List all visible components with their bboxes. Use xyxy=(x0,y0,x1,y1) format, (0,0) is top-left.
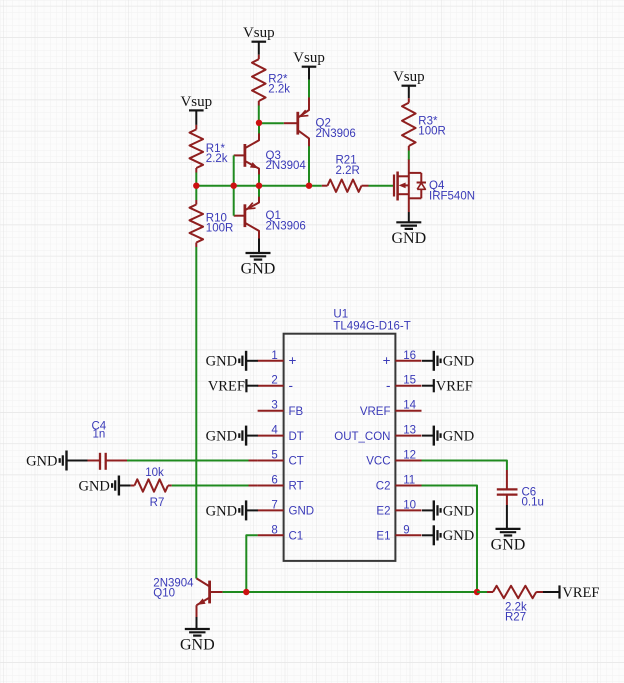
svg-text:OUT_CON: OUT_CON xyxy=(334,431,390,443)
ground port at pin 9 xyxy=(422,525,474,545)
node junction Q1 emitter/row xyxy=(256,183,262,189)
svg-text:VCC: VCC xyxy=(366,456,390,468)
svg-text:8: 8 xyxy=(271,524,277,536)
ground port at pin 16 xyxy=(422,351,474,371)
svg-text:2: 2 xyxy=(271,375,277,387)
svg-text:R7: R7 xyxy=(150,497,165,509)
pin 9 (E1) xyxy=(376,524,421,542)
capacitor C6 xyxy=(497,470,544,509)
wire R3 to Q4 drain xyxy=(408,151,410,161)
ground below Q10 xyxy=(180,629,215,654)
resistor R1 xyxy=(190,125,228,173)
svg-text:C2: C2 xyxy=(376,481,391,493)
svg-text:14: 14 xyxy=(403,400,416,412)
svg-text:CT: CT xyxy=(289,456,304,468)
wire pin 11 C2 to bottom node xyxy=(422,486,478,593)
svg-text:2.2R: 2.2R xyxy=(336,165,360,177)
svg-text:2N3906: 2N3906 xyxy=(266,221,306,233)
svg-text:12: 12 xyxy=(403,450,416,462)
svg-text:R27: R27 xyxy=(505,612,526,624)
svg-text:GND: GND xyxy=(443,503,474,519)
svg-text:2N3906: 2N3906 xyxy=(316,128,356,140)
node junction R2/Q3/Q2 xyxy=(256,120,262,126)
svg-text:DT: DT xyxy=(289,431,304,443)
resistor R21 xyxy=(322,155,369,192)
svg-text:Vsup: Vsup xyxy=(243,25,275,41)
pin 1 (1IN+) xyxy=(258,350,297,368)
wire Q10 base to bottom row xyxy=(223,591,247,593)
wire R21 to Q4 gate xyxy=(369,185,395,187)
wire C4 to pin 5 CT xyxy=(127,460,258,462)
svg-text:6: 6 xyxy=(271,475,277,487)
power port Vsup (R1 branch) xyxy=(180,94,212,125)
svg-text:GND: GND xyxy=(491,537,526,554)
svg-text:+: + xyxy=(383,353,391,368)
svg-text:GND: GND xyxy=(206,503,237,519)
transistor Q2 xyxy=(284,103,356,147)
svg-text:+: + xyxy=(289,353,297,368)
pin 7 (GND) xyxy=(258,499,314,517)
svg-text:VREF: VREF xyxy=(360,406,391,418)
svg-text:13: 13 xyxy=(403,425,416,437)
power port Vsup (R2 branch) xyxy=(243,25,275,55)
svg-text:GND: GND xyxy=(443,429,474,445)
wire R10 bottom to Q10 collector xyxy=(195,247,197,579)
IC U1 TL494G-D16-T xyxy=(284,309,411,561)
wire node row to Q1 emitter xyxy=(258,186,260,197)
wire Q2 collector to node row xyxy=(308,146,310,186)
power port Vsup (Q2 branch) xyxy=(293,50,325,97)
wire R27 to VREF port xyxy=(543,591,560,593)
pin 8 (C1) xyxy=(258,524,304,542)
ground port at pin 4 xyxy=(206,426,258,446)
wire R7 to pin 6 RT xyxy=(172,485,258,487)
wire Q10 emitter to ground xyxy=(196,617,198,629)
svg-text:2N3904: 2N3904 xyxy=(266,160,307,172)
power port Vsup (R3 branch) xyxy=(393,69,425,98)
wire Q1 collector down xyxy=(258,237,260,253)
node junction pin11/bottom xyxy=(474,589,480,595)
svg-text:FB: FB xyxy=(289,406,304,418)
svg-text:GND: GND xyxy=(241,261,276,278)
wire pin 12 VCC to C6 xyxy=(422,461,507,471)
pin 15 (2IN-) xyxy=(386,375,422,393)
node junction R1/row xyxy=(193,183,199,189)
svg-text:2.2k: 2.2k xyxy=(268,83,290,95)
svg-text:GND: GND xyxy=(206,354,237,370)
node junction Q2 collector/row xyxy=(306,183,312,189)
svg-text:4: 4 xyxy=(271,425,278,437)
svg-text:5: 5 xyxy=(271,450,277,462)
svg-text:1: 1 xyxy=(271,350,277,362)
transistor Q3 xyxy=(234,131,307,175)
node junction base column/row xyxy=(231,183,237,189)
pin 4 (DT) xyxy=(258,425,304,443)
svg-text:RT: RT xyxy=(289,481,304,493)
pin 6 (RT) xyxy=(258,475,304,493)
svg-text:-: - xyxy=(386,378,391,393)
resistor R7 xyxy=(131,467,172,509)
svg-text:-: - xyxy=(289,378,294,393)
svg-text:VREF: VREF xyxy=(208,379,245,395)
svg-text:Vsup: Vsup xyxy=(180,94,212,110)
wire bottom row xyxy=(246,591,477,593)
pin 2 (1IN-) xyxy=(258,375,293,393)
wire main node row xyxy=(196,185,321,187)
svg-text:100R: 100R xyxy=(418,126,446,138)
svg-text:Q10: Q10 xyxy=(153,588,175,600)
wire Q3 emitter to node row xyxy=(258,174,260,185)
pin 16 (2IN+) xyxy=(383,350,422,368)
svg-text:VREF: VREF xyxy=(436,379,473,395)
svg-text:16: 16 xyxy=(403,350,416,362)
svg-text:11: 11 xyxy=(403,475,415,487)
wire Vsup to Q2 emitter xyxy=(308,80,310,98)
transistor Q4 xyxy=(394,160,475,213)
net port VREF at R27 xyxy=(560,585,600,601)
resistor R27 xyxy=(477,586,543,624)
ground port at C4 xyxy=(26,451,78,471)
svg-text:10k: 10k xyxy=(145,467,164,479)
svg-text:GND: GND xyxy=(26,453,57,469)
svg-text:TL494G-D16-T: TL494G-D16-T xyxy=(333,321,410,333)
svg-text:3: 3 xyxy=(271,400,277,412)
ground port at pin 7 xyxy=(206,500,258,520)
svg-text:E1: E1 xyxy=(376,531,390,543)
svg-text:GND: GND xyxy=(391,230,426,247)
capacitor C4 xyxy=(78,420,127,470)
svg-text:Vsup: Vsup xyxy=(393,69,425,85)
resistor R10 xyxy=(190,200,234,247)
resistor R3 xyxy=(402,98,446,150)
resistor R2 xyxy=(252,55,290,106)
svg-text:C1: C1 xyxy=(289,531,304,543)
svg-text:10: 10 xyxy=(403,499,416,511)
pin 12 (VCC) xyxy=(366,450,421,468)
svg-text:GND: GND xyxy=(443,528,474,544)
svg-text:Vsup: Vsup xyxy=(293,50,325,66)
ground below Q4 xyxy=(391,222,426,247)
svg-text:9: 9 xyxy=(403,524,409,536)
ground below Q1 xyxy=(241,253,276,278)
pin 3 (FB) xyxy=(258,400,304,418)
svg-text:0.1u: 0.1u xyxy=(522,497,544,509)
pin 11 (C2) xyxy=(376,475,422,493)
pin 13 (OUT_CON) xyxy=(334,425,421,443)
net port VREF at pin 2 xyxy=(208,379,258,395)
wire C6 to ground xyxy=(506,505,508,529)
node junction pin8/bottom xyxy=(243,589,249,595)
ground port at pin 13 xyxy=(422,426,474,446)
wire R1 to node row xyxy=(195,173,197,186)
svg-text:U1: U1 xyxy=(333,309,348,321)
svg-text:VREF: VREF xyxy=(562,585,599,601)
pin 14 (VREF) xyxy=(360,400,422,418)
svg-text:GND: GND xyxy=(443,354,474,370)
svg-text:GND: GND xyxy=(206,429,237,445)
net port VREF at pin 15 xyxy=(422,379,473,395)
transistor Q10 xyxy=(153,577,222,617)
svg-text:GND: GND xyxy=(180,637,215,654)
pin 5 (CT) xyxy=(258,450,304,468)
ground port at pin 10 xyxy=(422,500,474,520)
pin 10 (E2) xyxy=(376,499,421,517)
ground port at pin 1 xyxy=(206,351,258,371)
wire Q4 source to ground xyxy=(408,212,410,222)
wire R2 to node xyxy=(258,106,260,123)
svg-text:15: 15 xyxy=(403,375,416,387)
svg-text:IRF540N: IRF540N xyxy=(429,190,475,202)
svg-text:GND: GND xyxy=(78,478,109,494)
ground port at R7 xyxy=(78,476,130,496)
wire Q2 emitter up xyxy=(308,97,310,104)
ground below C6 xyxy=(491,529,526,554)
svg-text:7: 7 xyxy=(271,499,277,511)
wire node to Q3 collector xyxy=(258,123,260,134)
svg-text:1n: 1n xyxy=(93,429,106,441)
svg-text:100R: 100R xyxy=(206,223,234,235)
wire pin 8 C1 to bottom node xyxy=(246,535,257,592)
wire R10 top to node xyxy=(195,186,197,200)
transistor Q1 xyxy=(234,196,306,238)
wire Q3/Q1 base column xyxy=(233,155,235,215)
svg-text:2.2k: 2.2k xyxy=(206,153,228,165)
svg-text:E2: E2 xyxy=(376,506,390,518)
wire Q2 base to node xyxy=(259,122,284,124)
svg-text:GND: GND xyxy=(289,506,315,518)
